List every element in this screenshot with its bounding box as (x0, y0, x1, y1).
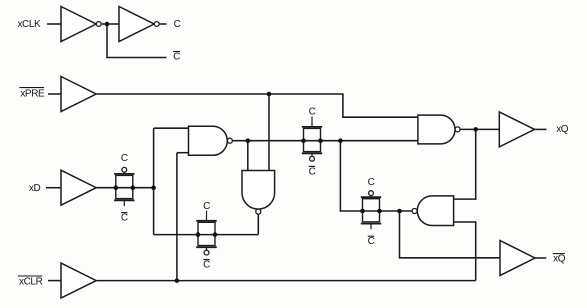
svg-text:xQ: xQ (556, 124, 569, 135)
svg-text:xCLR: xCLR (19, 277, 43, 288)
svg-text:C: C (309, 106, 316, 117)
svg-text:xCLK: xCLK (17, 19, 41, 30)
svg-text:xQ: xQ (553, 254, 566, 265)
svg-text:C: C (121, 213, 128, 224)
svg-text:C: C (121, 153, 128, 164)
svg-text:xD: xD (29, 183, 41, 194)
svg-text:C: C (174, 19, 181, 30)
svg-text:C: C (203, 201, 210, 212)
svg-text:xPRE: xPRE (20, 89, 45, 100)
svg-text:C: C (203, 260, 210, 271)
svg-text:C: C (173, 52, 180, 63)
svg-text:C: C (368, 236, 375, 247)
svg-text:C: C (309, 166, 316, 177)
svg-text:C: C (368, 177, 375, 188)
